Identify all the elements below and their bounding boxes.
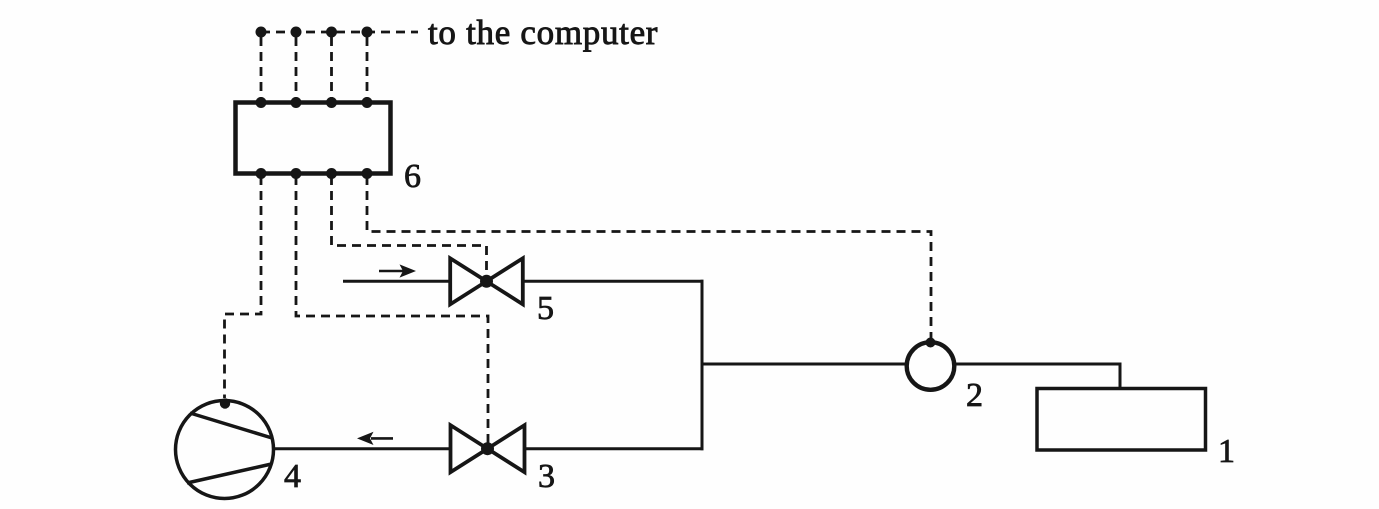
valve 3	[451, 425, 525, 472]
pipe: right riser vertical	[701, 280, 704, 450]
node: valve 5 stem dot	[480, 275, 493, 288]
pipe: valve 3 to pump 4	[272, 447, 451, 450]
wire: dashed control line box6 pin3 to valve 5	[332, 176, 487, 278]
svg-text:6: 6	[404, 158, 421, 195]
wire: dashed drop 4 to interface box	[366, 37, 369, 100]
pipe: return line from riser to valve 3	[525, 447, 704, 450]
svg-text:3: 3	[538, 458, 555, 495]
svg-text:1: 1	[1218, 433, 1235, 470]
wire: dashed drop 3 to interface box	[330, 37, 333, 100]
pin: box6 top pin 1	[256, 97, 267, 108]
pipe: valve 5 outlet to right riser	[523, 280, 704, 283]
pipe: inlet line into valve 5	[343, 280, 450, 283]
sensor 2 (circle)	[907, 342, 955, 390]
node: dot on pump 4 top	[220, 398, 230, 408]
pin: box6 top pin 4	[362, 97, 373, 108]
node: valve 3 stem dot	[481, 442, 494, 455]
node: computer tap dot 3	[326, 27, 337, 38]
svg-text:5: 5	[537, 290, 554, 327]
pipe: branch to sensor 2	[702, 363, 906, 366]
node: computer tap dot 4	[362, 27, 373, 38]
pin: box6 top pin 3	[326, 97, 337, 108]
svg-text:2: 2	[966, 377, 983, 414]
pin: box6 bottom pin 4	[362, 168, 373, 179]
pump 4 lower vane	[187, 464, 272, 483]
svg-text:to the computer: to the computer	[428, 13, 658, 52]
node: dot on sensor 2 top	[926, 338, 936, 348]
pin: box6 bottom pin 1	[256, 168, 267, 179]
wire: dashed control line box6 pin2 to valve 3	[296, 176, 488, 445]
pipe: sensor 2 to tank drop	[956, 363, 1122, 366]
svg-text:4: 4	[284, 458, 301, 495]
wire: dashed drop 2 to interface box	[295, 37, 298, 100]
valve 5	[450, 258, 523, 304]
arrow: flow direction right at valve 5	[379, 264, 416, 277]
wire: dashed control line box6 pin1 to pump 4	[225, 176, 262, 398]
pipe: drop into tank 1	[1119, 364, 1122, 388]
wire: dashed drop 1 to interface box	[260, 37, 263, 100]
pin: box6 bottom pin 3	[326, 168, 337, 179]
node: computer tap dot 2	[291, 27, 302, 38]
pin: box6 bottom pin 2	[291, 168, 302, 179]
pump 4 upper vane	[190, 413, 272, 438]
wire: dashed control line box6 pin4 to sensor 2	[367, 176, 931, 338]
tank 1	[1037, 389, 1206, 451]
node: computer tap dot 1	[256, 27, 267, 38]
interface box 6	[236, 103, 391, 174]
dashed signal bus to computer (horizontal)	[261, 31, 418, 34]
pump 4 (circle)	[176, 401, 274, 499]
pin: box6 top pin 2	[291, 97, 302, 108]
arrow: flow direction left at valve 3	[357, 432, 393, 445]
